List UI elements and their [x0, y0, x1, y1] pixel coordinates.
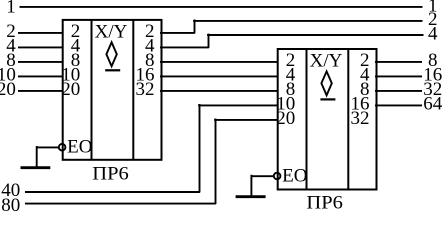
svg-text:32: 32 — [136, 79, 155, 100]
wire input 20 — [18, 90, 63, 92]
D2 diamond underline — [320, 98, 335, 100]
wire jog up output 2 — [194, 20, 196, 34]
wire EO1 ground drop — [36, 146, 38, 167]
ground GND1 bar — [21, 166, 51, 169]
wire net 4 to right edge — [207, 34, 423, 36]
wire input 2 — [18, 32, 63, 34]
D1 divider right — [132, 20, 134, 160]
wire EO2 to ground — [251, 175, 274, 177]
EO1 inversion bubble — [59, 144, 66, 151]
svg-text:EO: EO — [67, 136, 92, 157]
wire D1 out 8 to D2 in 2 — [160, 61, 278, 63]
wire input 40 horizontal — [25, 191, 200, 193]
D2 divider right — [347, 49, 349, 190]
wire net 80 to D2 input 20 — [214, 119, 278, 121]
svg-text:1: 1 — [6, 0, 16, 17]
svg-text:64: 64 — [423, 94, 443, 115]
converter D2 body (PR6 right) — [278, 49, 377, 190]
wire EO2 ground drop — [250, 175, 252, 196]
wire jog up output 4 — [208, 34, 210, 48]
svg-text:4: 4 — [428, 23, 438, 44]
wire input 80 vertical riser — [215, 119, 217, 205]
wire EO1 to ground — [36, 146, 59, 148]
ground GND2 bar — [236, 195, 266, 198]
wire net 2 to right edge — [193, 20, 422, 22]
D1 divider left — [91, 20, 93, 160]
wire net 1 (top, input 1 to output 1) — [20, 6, 423, 8]
converter D1 body (PR6 left) — [63, 20, 162, 160]
svg-text:20: 20 — [0, 79, 16, 100]
wire D1 out 32 to D2 in 8 — [160, 90, 278, 92]
wire D1 output 4 stub — [160, 46, 209, 48]
svg-text:80: 80 — [1, 195, 20, 211]
svg-text:20: 20 — [276, 108, 295, 129]
svg-text:20: 20 — [61, 79, 80, 100]
svg-text:32: 32 — [351, 108, 370, 129]
svg-text:X/Y: X/Y — [310, 50, 343, 71]
svg-text:EO: EO — [282, 165, 307, 186]
wire input 80 horizontal — [25, 203, 216, 205]
wire net 40 to D2 input 10 — [198, 104, 278, 106]
D1 diamond underline — [105, 69, 120, 71]
D2 divider left — [306, 49, 308, 190]
wire input 40 vertical riser — [199, 104, 201, 192]
D1 open-collector diamond — [106, 42, 116, 66]
wire D1 output 2 stub — [160, 32, 195, 34]
wire D2 output 8 — [375, 61, 422, 63]
wire D2 output 32 — [375, 90, 422, 92]
wire D2 output 16 — [375, 75, 422, 77]
wire input 8 — [18, 61, 63, 63]
wire D1 out 16 to D2 in 4 — [160, 75, 278, 77]
D2 open-collector diamond — [321, 71, 331, 95]
wire D2 output 64 — [375, 104, 422, 106]
svg-text:ПР6: ПР6 — [92, 164, 129, 185]
wire input 10 — [18, 75, 63, 77]
EO2 inversion bubble — [274, 173, 281, 180]
wire input 4 — [18, 46, 63, 48]
svg-text:X/Y: X/Y — [95, 21, 128, 42]
svg-text:ПР6: ПР6 — [306, 193, 343, 211]
